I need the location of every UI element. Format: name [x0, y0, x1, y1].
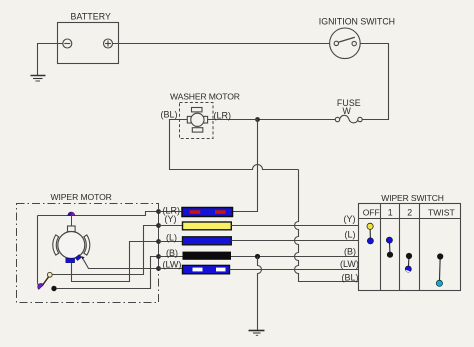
connector block (LR) blue with red stripes — [182, 208, 233, 217]
washer motor dashed box — [180, 103, 214, 139]
battery negative terminal — [63, 39, 72, 48]
svg-text:WIPER MOTOR: WIPER MOTOR — [51, 192, 112, 202]
wiper switch header line — [359, 218, 461, 220]
wire washer motor (BL) down and right with hop — [170, 120, 299, 170]
ground (main) — [249, 331, 265, 336]
node: feed junction — [255, 117, 260, 122]
switch position 1 contact pair — [386, 237, 393, 258]
wire ignition switch to fuse — [360, 44, 388, 120]
wire ground junction down with hop to ground — [258, 257, 262, 331]
wiper switch box — [359, 204, 461, 291]
node (B) box edge — [156, 254, 161, 259]
park switch pivot (violet) — [38, 283, 44, 289]
ignition switch right contact — [352, 41, 356, 45]
wire yellow contact to (Y) row — [52, 226, 158, 275]
battery B1 — [58, 23, 119, 64]
switch OFF contact pair — [367, 223, 374, 244]
svg-text:(Y): (Y) — [344, 214, 356, 224]
wire (LW) connector to wiper switch — [230, 269, 359, 271]
wiper switch column separators — [381, 204, 420, 291]
switch position 2 contact pair — [405, 253, 412, 272]
wire (Y) node to connector — [159, 225, 183, 227]
wire (LW) diagonal from arrow — [83, 259, 158, 268]
wiper motor box — [17, 204, 159, 303]
svg-text:(LR): (LR) — [214, 110, 232, 120]
wire (B) connector to wiper switch — [231, 256, 359, 258]
svg-text:(BL): (BL) — [161, 110, 178, 120]
svg-text:W: W — [343, 106, 352, 116]
park switch contact (yellow) — [47, 272, 52, 277]
node (LW) box edge — [156, 266, 161, 271]
svg-text:IGNITION SWITCH: IGNITION SWITCH — [319, 17, 395, 27]
park switch lever — [42, 277, 49, 286]
wiper motor (LW) arrow mark — [81, 256, 84, 260]
connector block (L) blue — [183, 237, 232, 245]
svg-text:(L): (L) — [345, 230, 356, 240]
node (LR) box edge — [156, 209, 161, 214]
switch TWIST contact pair — [436, 253, 443, 286]
wire battery negative to ground — [38, 44, 63, 76]
park switch ground dot (black) — [51, 286, 56, 291]
svg-text:OFF: OFF — [363, 208, 380, 218]
svg-text:(B): (B) — [344, 247, 356, 257]
svg-text:WASHER MOTOR: WASHER MOTOR — [170, 92, 240, 102]
wire fuse to feed junction — [258, 119, 336, 121]
wiper motor terminal (LW) small — [75, 255, 81, 261]
node: ground junction on (B) — [255, 254, 260, 259]
wiper motor terminal dome (LR) — [68, 212, 75, 216]
wiper motor body circle — [58, 232, 85, 259]
svg-text:(BL): (BL) — [342, 273, 359, 283]
wire motor terminal to (L) row — [72, 242, 159, 282]
wire battery positive to ignition switch — [113, 43, 330, 45]
wire feed junction to washer motor (LR) — [207, 119, 258, 121]
svg-text:2: 2 — [407, 208, 412, 218]
svg-text:(Y): (Y) — [165, 214, 177, 224]
wiper motor box edge bus segment — [158, 212, 160, 269]
connector block (Y) yellow — [183, 222, 232, 230]
svg-text:(LW): (LW) — [163, 259, 182, 269]
wire (Y) connector to wiper switch — [231, 225, 358, 227]
wiper motor neck — [71, 216, 73, 227]
node (Y) box edge — [156, 223, 161, 228]
wire black dot to (B) row — [57, 257, 159, 289]
ignition switch blade — [338, 37, 355, 42]
wire (LW) node to connector — [159, 268, 183, 270]
wire (L) node to connector — [159, 241, 183, 243]
ground (battery) — [31, 76, 46, 82]
svg-text:(L): (L) — [166, 232, 177, 242]
wire (BL) riser down with hops to wiper switch — [295, 170, 359, 282]
ignition switch — [330, 28, 361, 59]
connector block (LW) blue with white stripes — [183, 265, 230, 273]
ignition switch left contact — [334, 41, 338, 45]
wiper motor left brush — [53, 235, 59, 255]
svg-text:(LW): (LW) — [340, 259, 359, 269]
battery positive terminal — [104, 39, 113, 48]
wiper motor internal top wire (LR) — [38, 212, 159, 216]
svg-text:(B): (B) — [166, 248, 178, 258]
wiper motor park pivot feed wire — [38, 216, 42, 288]
svg-text:WIPER SWITCH: WIPER SWITCH — [381, 193, 444, 203]
svg-text:TWIST: TWIST — [428, 208, 455, 218]
wire (LR) node to connector — [159, 211, 183, 213]
wiper motor bottom terminal (L) — [66, 258, 75, 262]
connector block (B) black — [183, 252, 232, 260]
wiper motor right brush — [84, 235, 90, 255]
svg-text:BATTERY: BATTERY — [71, 12, 111, 22]
node (L) box edge — [156, 239, 161, 244]
svg-text:1: 1 — [388, 208, 393, 218]
wire feed junction down to connector (LR) — [233, 120, 258, 212]
washer motor body — [187, 108, 207, 133]
fuse W — [335, 115, 362, 123]
wire (B) node to connector — [159, 256, 183, 258]
wire (L) connector to wiper switch — [231, 240, 358, 242]
